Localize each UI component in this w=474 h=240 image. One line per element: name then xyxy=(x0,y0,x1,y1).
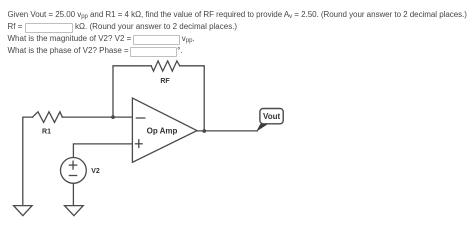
node output junction xyxy=(202,129,206,133)
question line 3 with input box xyxy=(8,33,195,46)
svg-text:Op Amp: Op Amp xyxy=(147,127,178,136)
wire R1 left lead down to ground xyxy=(23,117,33,205)
source V2 xyxy=(61,158,87,184)
Vout label box xyxy=(260,109,283,124)
wire feedback left (inverting node up and across to RF) xyxy=(113,66,151,117)
ground (V2) xyxy=(65,206,84,216)
node inverting junction xyxy=(111,115,115,119)
svg-text:V2: V2 xyxy=(91,168,100,175)
question line 1 xyxy=(8,9,467,22)
resistor RF xyxy=(151,61,180,71)
question line 2 with input box xyxy=(8,21,238,33)
wire feedback right (RF across and down to output node) xyxy=(180,66,205,131)
wire non-inverting input from V2 xyxy=(73,144,132,158)
op-amp non-inverting pin mark xyxy=(136,140,143,148)
question line 4 with input box xyxy=(8,45,183,57)
wire V2 to ground xyxy=(72,183,74,205)
Vout flag tail xyxy=(256,124,268,132)
op-amp U1 xyxy=(132,98,197,162)
wire R1 to inverting input xyxy=(62,116,132,118)
svg-text:RF: RF xyxy=(160,78,170,85)
op-amp inverting pin mark xyxy=(136,117,144,119)
svg-text:Vout: Vout xyxy=(263,112,281,121)
svg-text:R1: R1 xyxy=(42,129,51,136)
ground (left) xyxy=(14,206,32,216)
wire output xyxy=(197,130,257,132)
resistor R1 xyxy=(33,112,63,123)
